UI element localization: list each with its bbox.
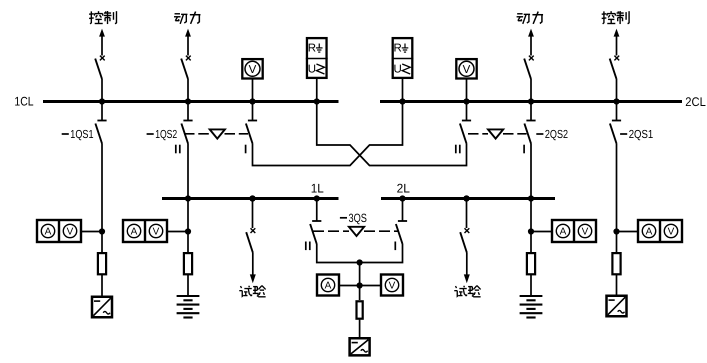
svg-text:V: V (582, 227, 589, 238)
svg-text:1QS1: 1QS1 (70, 128, 93, 141)
svg-text:V: V (153, 227, 160, 238)
svg-text:V: V (67, 227, 74, 238)
svg-text:V: V (463, 64, 471, 76)
svg-text:R: R (308, 42, 316, 54)
svg-text:V: V (668, 227, 675, 238)
svg-text:2QS2: 2QS2 (545, 128, 568, 141)
svg-text:2QS1: 2QS1 (629, 128, 654, 141)
svg-text:A: A (646, 227, 653, 238)
svg-text:A: A (325, 281, 332, 292)
svg-text:V: V (389, 281, 396, 292)
svg-text:A: A (560, 227, 567, 238)
svg-text:2CL: 2CL (685, 95, 706, 109)
svg-text:1CL: 1CL (14, 94, 33, 108)
svg-text:U: U (308, 63, 316, 75)
svg-text:R: R (393, 42, 401, 54)
svg-text:U: U (393, 63, 401, 75)
svg-text:1L: 1L (311, 181, 324, 195)
svg-text:A: A (131, 227, 138, 238)
svg-text:1QS2: 1QS2 (155, 128, 177, 141)
svg-text:V: V (249, 64, 257, 76)
svg-text:A: A (45, 227, 52, 238)
svg-text:3QS: 3QS (349, 211, 367, 225)
svg-text:2L: 2L (397, 181, 410, 195)
